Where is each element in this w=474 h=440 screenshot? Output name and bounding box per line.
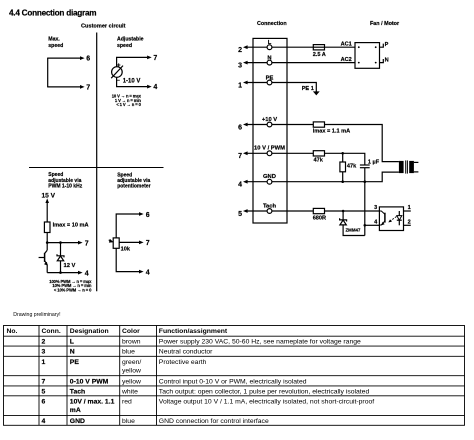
opto light arrow <box>390 217 397 222</box>
wire +10V to resistor <box>272 124 313 126</box>
svg-text:47k: 47k <box>347 163 357 169</box>
svg-text:2: 2 <box>42 339 46 346</box>
wire GND branch to opto pin 4 <box>364 182 366 236</box>
wire source bottom to node 4 <box>117 77 148 86</box>
optocoupler U1 <box>379 207 403 231</box>
svg-text:Customer circuit: Customer circuit <box>81 23 126 29</box>
resistor R Imax=10mA <box>44 222 50 233</box>
svg-text:12 V: 12 V <box>64 263 76 269</box>
svg-text:4: 4 <box>85 270 89 277</box>
opto phototransistor <box>379 211 385 225</box>
svg-text:4: 4 <box>153 84 157 91</box>
svg-text:speed: speed <box>48 43 63 49</box>
voltage source V1 1-10 V <box>112 67 123 78</box>
junction GND cap <box>364 180 367 183</box>
zener diode ZD 12 V <box>57 243 64 273</box>
svg-text:6: 6 <box>146 212 150 219</box>
svg-text:yellow: yellow <box>122 367 141 374</box>
svg-text:7: 7 <box>42 378 46 385</box>
junction zener bottom <box>59 271 62 274</box>
svg-text:15 V: 15 V <box>42 193 56 200</box>
svg-text:47k: 47k <box>314 158 324 164</box>
svg-text:10V / max. 1.1: 10V / max. 1.1 <box>70 398 115 405</box>
svg-text:brown: brown <box>122 339 141 346</box>
wire PE to ground <box>272 83 316 92</box>
svg-text:1: 1 <box>408 205 411 211</box>
capacitor C1 1uF <box>360 165 370 182</box>
terminal N pin 3 <box>238 55 272 69</box>
svg-text:4: 4 <box>146 269 150 276</box>
divider line horizontal left sections <box>29 167 164 169</box>
svg-text:green/: green/ <box>122 359 141 366</box>
resistor Imax 1.1 mA <box>313 122 324 127</box>
wire max-speed to node 6 <box>47 57 80 59</box>
wire N to AC2 <box>272 62 355 64</box>
plus sign <box>117 64 120 66</box>
svg-text:Control input 0-10 V or PWM, e: Control input 0-10 V or PWM, electricall… <box>159 378 307 385</box>
svg-text:7: 7 <box>86 85 90 92</box>
opto pin 1 <box>404 210 411 212</box>
svg-text:Designation: Designation <box>70 328 109 335</box>
table row conn 1 PE <box>42 359 207 375</box>
resistor 680R <box>313 208 324 213</box>
svg-text:3: 3 <box>374 205 377 211</box>
svg-text:potentiometer: potentiometer <box>117 184 150 190</box>
wire L to fuse <box>272 46 313 48</box>
svg-text:PWM 1-10 kHz: PWM 1-10 kHz <box>48 184 82 190</box>
svg-text:red: red <box>122 398 132 405</box>
svg-text:10k: 10k <box>121 246 131 252</box>
svg-text:2: 2 <box>408 219 411 225</box>
wire max-speed to node 7 <box>47 86 80 88</box>
wire pot bottom to node 4 <box>116 248 139 271</box>
svg-text:2: 2 <box>238 47 242 54</box>
wire pot top to node 6 <box>116 214 139 238</box>
svg-text:yellow: yellow <box>122 378 141 385</box>
svg-text:N: N <box>70 349 75 356</box>
svg-text:Drawing preliminary!: Drawing preliminary! <box>13 312 60 318</box>
svg-text:4: 4 <box>42 418 46 425</box>
motor terminal P <box>380 44 384 48</box>
svg-text:GND connection for control int: GND connection for control interface <box>159 418 269 425</box>
svg-text:Adjustable: Adjustable <box>117 37 144 43</box>
svg-text:3: 3 <box>42 349 46 356</box>
svg-text:5: 5 <box>42 388 46 395</box>
motor terminal N <box>380 59 384 63</box>
svg-text:6: 6 <box>86 56 90 63</box>
motor box Fan/Motor <box>355 43 380 69</box>
terminal +10V pin 6 <box>238 117 277 132</box>
divider line customer circuit vertical <box>96 33 98 292</box>
terminal Tach pin 5 <box>238 203 276 218</box>
svg-text:Conn.: Conn. <box>42 328 61 335</box>
junction zener top <box>59 241 62 244</box>
opto LED <box>397 211 402 225</box>
svg-text:ZMM47: ZMM47 <box>346 227 361 232</box>
svg-text:Tach output: open collector, 1: Tach output: open collector, 1 pulse per… <box>159 388 370 395</box>
svg-text:PE 1: PE 1 <box>302 86 314 92</box>
svg-text:Imax = 1.1 mA: Imax = 1.1 mA <box>313 128 350 134</box>
junction Tach zener <box>342 210 345 213</box>
svg-text:0-10 V PWM: 0-10 V PWM <box>70 378 109 385</box>
wire max-speed vertical <box>47 58 49 87</box>
svg-text:N: N <box>385 58 389 64</box>
svg-text:blue: blue <box>122 418 135 425</box>
svg-text:Protective earth: Protective earth <box>159 359 207 366</box>
wire Tach to resistor 680R <box>272 210 313 212</box>
table row conn 7 <box>42 378 307 385</box>
svg-text:5: 5 <box>238 211 242 218</box>
svg-text:6: 6 <box>238 124 242 131</box>
table row conn 6 <box>42 398 375 414</box>
wire resistor to collector node <box>46 233 48 251</box>
table row conn 4 GND <box>42 418 269 425</box>
svg-text:Voltage output 10 V / 1.1 mA,: Voltage output 10 V / 1.1 mA, electrical… <box>159 398 374 405</box>
ground PE1 <box>313 91 320 95</box>
wire source top to node 7 <box>117 57 148 66</box>
terminal 10V/PWM pin 7 <box>238 146 285 161</box>
svg-text:Power supply 230 VAC, 50-60 Hz: Power supply 230 VAC, 50-60 Hz, see name… <box>159 339 361 346</box>
svg-text:1 µF: 1 µF <box>368 160 380 166</box>
fuse F1 2.5 A <box>313 45 324 50</box>
wire 680R to opto pin 3 <box>325 210 380 212</box>
terminal block <box>253 38 287 223</box>
svg-text:blue: blue <box>122 349 135 356</box>
wire emitter to 4 arrow <box>47 272 78 274</box>
svg-text:Color: Color <box>122 328 140 335</box>
svg-text:mA: mA <box>70 407 81 414</box>
opto pin 2 <box>404 224 411 226</box>
svg-text:Fan / Motor: Fan / Motor <box>370 21 400 27</box>
svg-text:white: white <box>121 388 138 395</box>
svg-text:4.4 Connection diagram: 4.4 Connection diagram <box>9 8 96 17</box>
wire pot wiper to node 7 <box>119 241 139 243</box>
svg-text:6: 6 <box>42 398 46 405</box>
resistor 47k shunt <box>340 153 346 181</box>
svg-text:Imax = 10 mA: Imax = 10 mA <box>53 222 89 228</box>
svg-text:speed: speed <box>117 43 132 49</box>
svg-text:4: 4 <box>238 182 242 189</box>
svg-text:GND: GND <box>70 418 85 425</box>
svg-text:1: 1 <box>238 82 242 89</box>
wire PWM to resistor 47k <box>272 152 313 154</box>
svg-text:No.: No. <box>7 328 18 335</box>
table row conn 2 L <box>42 339 362 346</box>
junction GND 47k <box>341 180 344 183</box>
svg-text:Tach: Tach <box>70 388 85 395</box>
svg-text:1-10 V: 1-10 V <box>123 78 141 84</box>
wire fuse to AC1 <box>325 46 356 48</box>
wire 15V to resistor <box>46 203 48 223</box>
svg-text:3: 3 <box>238 62 242 69</box>
svg-text:< 10% PWM → n = 0: < 10% PWM → n = 0 <box>54 287 92 292</box>
svg-text:AC1: AC1 <box>341 42 352 48</box>
junction collector <box>46 241 49 244</box>
table row conn 3 N <box>42 349 214 356</box>
svg-text:Function/assignment: Function/assignment <box>159 328 228 335</box>
junction opto pin4 <box>364 224 367 227</box>
wire resistor to transformer top <box>325 125 399 162</box>
svg-text:1: 1 <box>42 359 46 366</box>
svg-text:PE: PE <box>70 359 80 366</box>
svg-text:< 1 V → n = 0: < 1 V → n = 0 <box>116 102 141 107</box>
potentiometer 10k <box>109 238 120 248</box>
svg-text:Neutral conductor: Neutral conductor <box>159 349 213 356</box>
terminal GND pin 4 <box>238 174 276 189</box>
wire GND to transformer bottom <box>272 172 399 182</box>
svg-text:7: 7 <box>85 240 89 247</box>
svg-text:7: 7 <box>146 240 150 247</box>
resistor 47k series <box>313 151 324 156</box>
zener diode ZMM47 <box>340 211 365 236</box>
table grid <box>4 326 465 426</box>
terminal L pin 2 <box>238 40 272 54</box>
svg-text:P: P <box>385 42 389 48</box>
junction PWM 47k shunt <box>341 152 344 155</box>
table header row <box>7 328 228 335</box>
transistor Q1 <box>39 250 48 272</box>
svg-text:680R: 680R <box>313 216 326 222</box>
supply arrow up <box>45 198 49 203</box>
svg-text:Connection: Connection <box>257 21 287 27</box>
svg-text:Max.: Max. <box>48 37 60 43</box>
svg-text:AC2: AC2 <box>341 57 352 63</box>
svg-text:7: 7 <box>238 153 242 160</box>
wire node to 7 arrow <box>47 242 78 244</box>
svg-text:L: L <box>70 339 74 346</box>
table row conn 5 Tach <box>42 388 370 395</box>
svg-text:2.5 A: 2.5 A <box>313 52 326 58</box>
wire 47k to capacitor <box>325 153 365 165</box>
terminal PE pin 1 <box>238 75 273 89</box>
svg-text:7: 7 <box>153 55 157 62</box>
transformer T1 <box>399 160 419 173</box>
